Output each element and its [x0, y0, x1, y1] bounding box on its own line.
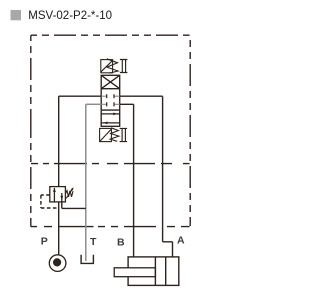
- pressure source circle: [49, 255, 66, 272]
- wire drain to T-line: [62, 202, 86, 209]
- wire T vertical down to tank: [85, 104, 87, 261]
- spring A (top) I-beam: [120, 60, 128, 73]
- solenoid B (bottom) box: [100, 128, 119, 142]
- valve V1 center position blocked port stubs: [101, 96, 120, 104]
- solenoid A zigzag: [107, 59, 118, 73]
- valve V1 parallel-flow arrow right: [101, 114, 120, 123]
- spring B (bottom) I-beam: [120, 128, 128, 141]
- sequence valve V2 flow arrowhead up: [53, 188, 56, 193]
- wire P below sequence valve to source: [59, 202, 86, 255]
- sequence valve V2 drain arrowhead down: [60, 196, 63, 201]
- pressure source dot: [53, 258, 61, 266]
- wire T from valve (gray): [86, 104, 101, 261]
- valve V1 crossed-flow diagonal 1: [101, 75, 120, 88]
- module enclosure dashed border right: [189, 40, 191, 226]
- module enclosure dashed border bottom: [31, 226, 190, 228]
- sequence valve V2 adjust arrow: [66, 188, 73, 198]
- solenoid A (top) box: [101, 59, 118, 73]
- tank symbol: [81, 255, 93, 264]
- module enclosure dashed border top: [31, 35, 190, 226]
- wire P from valve to P-line: [59, 96, 101, 186]
- wire P vertical down to sequence valve: [58, 96, 60, 186]
- solenoid B zigzag: [110, 128, 119, 142]
- svg-text:T: T: [90, 236, 97, 248]
- cylinder rod: [114, 268, 155, 277]
- sequence valve V2 drain passage line: [61, 193, 63, 202]
- module enclosure dashed border left: [30, 35, 32, 226]
- svg-text:A: A: [177, 234, 185, 246]
- cylinder body: [128, 257, 179, 286]
- cylinder piston line 2: [165, 257, 167, 286]
- wire B from valve: [120, 104, 134, 257]
- directional valve V1 body outline: [101, 75, 120, 126]
- svg-text:B: B: [117, 236, 125, 248]
- valve V1 box boundary X/center: [101, 88, 120, 90]
- sequence valve V2 spring: [66, 188, 74, 198]
- valve V1 box boundary center/arrows: [101, 109, 120, 111]
- module divider dashed line: [31, 163, 190, 165]
- valve V1 crossed-flow diagonal 2: [101, 75, 120, 88]
- valve V1 parallel-flow arrow left: [103, 122, 107, 125]
- sequence valve V2 pilot dashed line: [41, 195, 58, 208]
- solenoid B diagonal: [100, 129, 111, 141]
- valve V1 blocked port bars: [107, 94, 114, 106]
- sequence valve V2 flow line up: [53, 188, 55, 202]
- wire A jog to cylinder: [163, 242, 173, 257]
- wire A from valve: [120, 96, 173, 257]
- title bullet: [11, 10, 22, 20]
- solenoid A diagonal: [101, 61, 112, 72]
- svg-text:MSV-02-P2-*-10: MSV-02-P2-*-10: [28, 10, 112, 22]
- sequence valve V2 body: [50, 187, 66, 202]
- cylinder piston line 1: [155, 257, 165, 286]
- svg-text:P: P: [41, 235, 48, 247]
